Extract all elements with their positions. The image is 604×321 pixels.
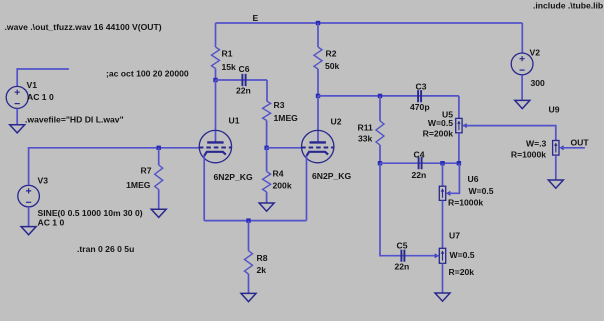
label U9 W=.3 xyxy=(526,138,547,148)
wire U6 wiper xyxy=(447,163,460,193)
label V3 designator xyxy=(38,176,49,186)
svg-text:V3: V3 xyxy=(38,176,49,186)
wire R11 bottom lead xyxy=(379,145,381,163)
label R1 designator xyxy=(222,49,233,59)
svg-text:C4: C4 xyxy=(414,150,425,160)
label U7 W=0.5 xyxy=(450,250,475,260)
label V1 value AC 1 0 xyxy=(27,92,54,102)
svg-text:U1: U1 xyxy=(229,116,240,126)
junction top rail / R2 xyxy=(316,21,320,25)
capacitor C5 xyxy=(401,250,404,262)
svg-text:200k: 200k xyxy=(273,181,292,191)
svg-text:R4: R4 xyxy=(273,169,284,179)
label V2 value 300 xyxy=(531,78,546,88)
capacitor C4 xyxy=(419,157,422,169)
label V3 value SINE xyxy=(38,208,143,218)
svg-text:1MEG: 1MEG xyxy=(126,180,151,190)
svg-text:U9: U9 xyxy=(549,105,560,115)
ground V3 ground xyxy=(21,227,36,235)
svg-text:C3: C3 xyxy=(416,82,427,92)
svg-text:AC 1 0: AC 1 0 xyxy=(27,92,54,102)
wire R2 bottom lead xyxy=(317,69,319,96)
svg-text:U6: U6 xyxy=(468,174,479,184)
resistor R11 xyxy=(376,121,384,145)
voltage source V3 xyxy=(18,185,40,207)
label U5 W=0.5 xyxy=(428,118,453,128)
wire R11 col down xyxy=(380,163,438,256)
wire R4 top lead xyxy=(266,148,268,172)
svg-text:300: 300 xyxy=(531,78,546,88)
wire V2 to ground xyxy=(521,75,523,101)
wire R7 to ground xyxy=(158,190,160,210)
triode U2 xyxy=(301,130,334,162)
ground U7 ground xyxy=(435,293,450,301)
svg-text:R7: R7 xyxy=(141,166,152,176)
wire R2 top lead xyxy=(317,23,319,47)
label directive .wavefile xyxy=(25,115,124,125)
svg-text:E: E xyxy=(253,13,259,23)
wire R1 top lead xyxy=(215,23,217,47)
svg-text:1MEG: 1MEG xyxy=(274,113,299,123)
label R7 value 1MEG xyxy=(126,180,151,190)
resistor R2 xyxy=(314,47,322,69)
wire R8 top lead xyxy=(248,221,250,251)
wire top rail E xyxy=(216,22,523,24)
svg-text:22n: 22n xyxy=(236,86,251,96)
label R2 designator xyxy=(326,49,337,59)
label R8 value 2k xyxy=(257,265,267,275)
label C6 value 22n xyxy=(236,86,251,96)
svg-text:R=1000k: R=1000k xyxy=(448,198,483,208)
wire R1 bottom lead xyxy=(215,69,217,81)
label U9 designator xyxy=(549,105,560,115)
junction node C4 rail / U5 bottom xyxy=(457,161,461,165)
svg-text:W=.3: W=.3 xyxy=(526,138,547,148)
svg-text:U7: U7 xyxy=(449,231,460,241)
svg-text:2k: 2k xyxy=(257,265,267,275)
wire grid U2 xyxy=(267,147,302,149)
wire U2 plate lead xyxy=(317,96,319,142)
wire U5 bottom lead xyxy=(458,133,460,163)
voltage source V2 xyxy=(511,53,533,75)
resistor R8 xyxy=(245,251,253,274)
label V1 designator xyxy=(27,80,38,90)
label R4 value 200k xyxy=(273,181,292,191)
svg-text:V2: V2 xyxy=(530,48,541,58)
ground R4 ground xyxy=(259,203,274,211)
label directive .tran xyxy=(77,244,134,254)
label R7 designator xyxy=(141,166,152,176)
capacitor C6 xyxy=(242,74,245,86)
wire V3 to ground xyxy=(28,207,30,227)
junction node R3/R4/grid U2 xyxy=(264,146,268,150)
label U7 designator xyxy=(449,231,460,241)
label U6 R=1000k xyxy=(448,198,483,208)
svg-text:R=20k: R=20k xyxy=(449,267,475,277)
wire R7 top lead xyxy=(158,148,160,165)
ground U9 ground xyxy=(548,180,563,188)
svg-text:R11: R11 xyxy=(358,123,374,133)
wire V1 stub xyxy=(17,69,69,86)
wire OUT xyxy=(561,147,585,149)
svg-text:U2: U2 xyxy=(331,117,342,127)
wire R11 top lead xyxy=(379,96,381,121)
svg-text:R3: R3 xyxy=(274,100,285,110)
label C3 value 470p xyxy=(410,102,430,112)
svg-text:R8: R8 xyxy=(257,253,268,263)
label C4 designator xyxy=(414,150,425,160)
wire R3 bottom lead xyxy=(266,121,268,148)
label U7 R=20k xyxy=(449,267,475,277)
svg-text:R=1000k: R=1000k xyxy=(511,150,546,160)
svg-text:OUT: OUT xyxy=(571,138,590,148)
svg-text:SINE(0 0.5 1000 10m 30 0): SINE(0 0.5 1000 10m 30 0) xyxy=(38,208,143,218)
resistor R7 xyxy=(155,165,163,190)
label C5 value 22n xyxy=(395,262,410,272)
label R11 designator xyxy=(358,123,374,133)
label U6 W=0.5 xyxy=(469,186,494,196)
wire cathode rail xyxy=(204,220,306,222)
label U2 value 6N2P_KG xyxy=(312,171,351,181)
label R3 designator xyxy=(274,100,285,110)
label U5 R=200k xyxy=(423,129,454,139)
wire C6 to R3 xyxy=(266,80,268,101)
label V3 value AC xyxy=(38,218,65,228)
potentiometer U6 xyxy=(439,186,450,200)
ground R7 ground xyxy=(151,209,166,217)
label U1 designator xyxy=(229,116,240,126)
wire U6 to U7 xyxy=(442,200,444,248)
wire C3 to U5 xyxy=(458,96,460,119)
svg-text:.tran 0 26 0 5u: .tran 0 26 0 5u xyxy=(77,244,134,254)
svg-text:C5: C5 xyxy=(397,241,408,251)
label C6 designator xyxy=(239,64,250,74)
svg-text:AC 1 0: AC 1 0 xyxy=(38,218,65,228)
label R1 value 15k xyxy=(222,62,237,72)
svg-text:W=0.5: W=0.5 xyxy=(469,186,494,196)
svg-text:33k: 33k xyxy=(358,134,373,144)
potentiometer U7 xyxy=(435,248,446,263)
resistor R3 xyxy=(263,101,271,121)
label U5 designator xyxy=(442,110,453,120)
label net OUT xyxy=(571,138,590,148)
svg-text:;ac oct 100 20 20000: ;ac oct 100 20 20000 xyxy=(106,69,189,79)
resistor R4 xyxy=(263,172,271,193)
potentiometer U5 xyxy=(456,118,467,132)
ground V2 ground xyxy=(515,100,530,108)
svg-text:R=200k: R=200k xyxy=(423,129,454,139)
wire C6 horizontal xyxy=(216,79,268,81)
label C4 value 22n xyxy=(412,170,427,180)
capacitor C3 xyxy=(418,90,421,102)
wire V2 top lead xyxy=(521,23,523,53)
svg-text:.include .\tube.lib: .include .\tube.lib xyxy=(533,1,603,11)
label directive ;ac xyxy=(106,69,189,79)
svg-text:470p: 470p xyxy=(410,102,430,112)
svg-text:R2: R2 xyxy=(326,49,337,59)
label directive .wave xyxy=(5,22,162,32)
resistor R1 xyxy=(212,47,220,69)
label R2 value 50k xyxy=(325,61,340,71)
voltage source V1 xyxy=(6,86,28,108)
svg-text:15k: 15k xyxy=(222,62,237,72)
label V2 designator xyxy=(530,48,541,58)
label U2 designator xyxy=(331,117,342,127)
wire C4 rail xyxy=(380,162,459,164)
wire V1 to ground xyxy=(16,109,18,125)
wire U5 wiper to U9 xyxy=(463,126,556,141)
svg-text:6N2P_KG: 6N2P_KG xyxy=(312,171,351,181)
svg-text:V1: V1 xyxy=(27,80,38,90)
label C5 designator xyxy=(397,241,408,251)
svg-text:R1: R1 xyxy=(222,49,233,59)
wire U7 to ground xyxy=(442,263,444,293)
label R3 value 1MEG xyxy=(274,113,299,123)
wire U9 to ground xyxy=(555,155,557,180)
label R11 value 33k xyxy=(358,134,373,144)
junction cathode rail / R8 xyxy=(246,218,250,222)
triode U1 xyxy=(199,130,232,162)
svg-text:22n: 22n xyxy=(395,262,410,272)
junction node C3 wire / R11 xyxy=(378,94,382,98)
label U1 value 6N2P_KG xyxy=(214,172,253,182)
svg-text:C6: C6 xyxy=(239,64,250,74)
label R8 designator xyxy=(257,253,268,263)
wire U2 cathode lead xyxy=(306,156,308,221)
wire U1 cathode lead xyxy=(203,156,205,221)
svg-text:.wave .\out_tfuzz.wav 16 44100: .wave .\out_tfuzz.wav 16 44100 V(OUT) xyxy=(5,22,162,32)
wire U1 plate lead xyxy=(215,80,217,142)
junction node R11/C4/C5 xyxy=(378,161,382,165)
junction node R2/plate U2/C3 xyxy=(316,94,320,98)
wire R4 to ground xyxy=(266,192,268,203)
junction node R1/C6/plate U1 xyxy=(213,78,217,82)
label C3 designator xyxy=(416,82,427,92)
wire plate U2 to C3 xyxy=(318,95,459,97)
label R4 designator xyxy=(273,169,284,179)
label directive .include xyxy=(533,1,603,11)
label net E xyxy=(253,13,259,23)
svg-text:W=0.5: W=0.5 xyxy=(450,250,475,260)
ground R8 ground xyxy=(241,293,256,301)
svg-text:.wavefile="HD DI L.wav": .wavefile="HD DI L.wav" xyxy=(25,115,124,125)
junction grid wire / R7 xyxy=(157,146,161,150)
junction node C4 rail / U6 top xyxy=(440,161,444,165)
svg-text:6N2P_KG: 6N2P_KG xyxy=(214,172,253,182)
svg-text:W=0.5: W=0.5 xyxy=(428,118,453,128)
wire V3 to grid U1 xyxy=(29,148,200,185)
potentiometer U9 xyxy=(553,141,564,156)
label U6 designator xyxy=(468,174,479,184)
ground V1 ground xyxy=(10,125,25,133)
wire R8 to ground xyxy=(248,274,250,293)
wire U6 top lead xyxy=(442,163,444,186)
label U9 R=1000k xyxy=(511,150,546,160)
svg-text:50k: 50k xyxy=(325,61,340,71)
svg-text:22n: 22n xyxy=(412,170,427,180)
